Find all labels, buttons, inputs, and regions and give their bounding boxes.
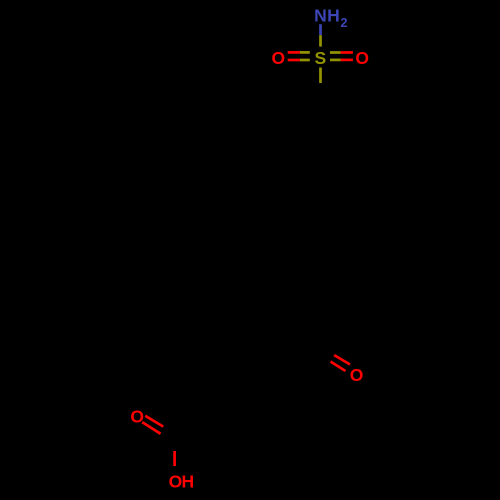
svg-text:O: O	[350, 365, 364, 385]
svg-text:O: O	[355, 48, 369, 68]
svg-text:H: H	[327, 6, 340, 26]
benzene ring (carbon bonds, black on black)	[277, 99, 364, 201]
svg-text:H: H	[181, 472, 194, 492]
svg-text:2: 2	[341, 16, 348, 30]
svg-text:O: O	[130, 407, 144, 427]
bond C-OH (C half black, O half red)	[173, 437, 176, 451]
double bond S=O1 upper line (O half red, S half olive)	[288, 51, 310, 54]
double bond S=O2 lower line	[330, 59, 353, 62]
carboxyl C=O double bond (O half red, C half black)	[142, 416, 179, 444]
lower ring system (carbon bonds, black on black)	[175, 342, 308, 444]
svg-text:S: S	[314, 48, 326, 68]
double bond S=O2 upper line (S half olive, O half red)	[330, 51, 353, 54]
hydroxyl label OH	[169, 472, 195, 492]
bond S-C(aryl) (S half, olive; C half invisible black)	[319, 68, 322, 84]
svg-text:O: O	[169, 472, 183, 492]
linker chain carbons (black on black)	[290, 200, 321, 342]
double bond S=O1 lower line	[288, 59, 310, 62]
svg-text:O: O	[271, 48, 285, 68]
ketone C=O double bond (O half red, C half black)	[316, 346, 351, 372]
svg-text:N: N	[314, 6, 327, 26]
amine label NH2	[314, 6, 347, 31]
bond N-S (S half, olive)	[319, 35, 322, 46]
bond N-S (N half, blue)	[319, 24, 322, 35]
